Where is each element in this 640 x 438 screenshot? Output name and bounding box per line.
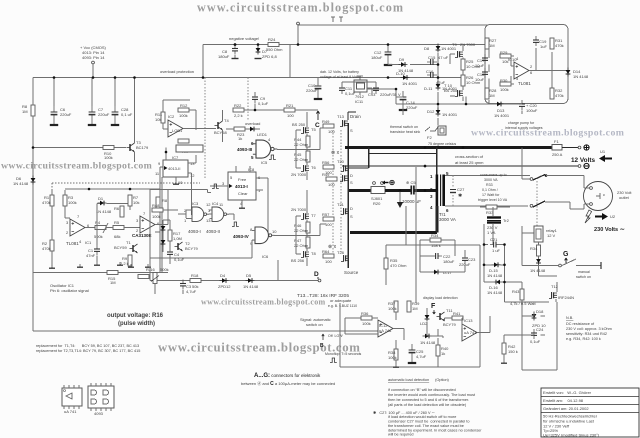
transistor T2 (175, 242, 183, 251)
svg-text:0,1uF: 0,1uF (174, 257, 185, 262)
svg-text:3000 VA: 3000 VA (484, 178, 498, 182)
junction dots bus (347, 146, 350, 149)
svg-text:470 Ohm: 470 Ohm (390, 263, 407, 268)
svg-text:Erstellt am: 04.12.98: Erstellt am: 04.12.98 (543, 398, 584, 403)
wires T2 (163, 220, 170, 264)
arrow U1 (599, 155, 612, 162)
wires driver lower (296, 190, 320, 266)
node connector circle (297, 22, 300, 25)
resistor R36 (361, 316, 372, 320)
resistor R41 (452, 316, 463, 320)
svg-text:sensitivity: R34 und R42: sensitivity: R34 und R42 (566, 332, 607, 336)
loop wire rounded (485, 25, 568, 104)
mosfet T8 (301, 251, 309, 258)
svg-text:IC7: IC7 (172, 155, 179, 160)
resistor R22 (233, 108, 244, 112)
diode D6 (31, 176, 36, 185)
capacitor C12 (384, 46, 392, 65)
capacitor C5 (410, 186, 412, 195)
svg-text:switch on: switch on (576, 275, 591, 279)
wires oscillator left (52, 190, 70, 265)
wire left edge x33 (32, 78, 34, 332)
svg-text:IC5: IC5 (261, 160, 268, 165)
svg-text:D4: D4 (220, 273, 226, 278)
svg-text:0,1 Ohm /: 0,1 Ohm / (482, 188, 498, 192)
diode D1 (98, 201, 107, 206)
wire R48 (163, 209, 178, 211)
wire R42 (504, 335, 522, 360)
svg-text:U2: U2 (610, 214, 616, 219)
connector marks top (331, 17, 343, 22)
svg-text:1M: 1M (412, 306, 418, 311)
svg-text:100: 100 (325, 259, 332, 264)
svg-text:G: G (563, 251, 569, 258)
svg-text:1M: 1M (22, 109, 28, 114)
wire step to pulse (150, 190, 211, 193)
svg-text:ZPD12: ZPD12 (218, 284, 231, 289)
resistor R24 (268, 43, 279, 47)
wires gates (178, 210, 234, 220)
text consumers (478, 173, 508, 202)
op-amp IC2 (168, 120, 183, 137)
wire osc top (65, 188, 160, 190)
svg-text:Source: Source (344, 270, 359, 275)
heavy pin1 feed (369, 154, 437, 176)
text T13..T28 (297, 293, 357, 308)
ground IC12 (393, 364, 399, 367)
wire row y147 (33, 147, 126, 149)
diode D8 (436, 44, 441, 53)
wire contact to outlet bottom (545, 202, 584, 209)
resistor R2 (50, 240, 54, 251)
svg-text:⊗ x: ⊗ x (331, 150, 340, 156)
svg-text:Geändert am: 20.01.2002: Geändert am: 20.01.2002 (543, 406, 589, 411)
diode D18 (532, 312, 537, 321)
svg-text:at least 25 qmm: at least 25 qmm (455, 160, 484, 165)
svg-text:230 Volts ∼: 230 Volts ∼ (594, 227, 625, 233)
capacitor C4 (167, 248, 173, 258)
svg-text:D1: D1 (98, 196, 104, 201)
junction dots extra (202, 76, 205, 79)
svg-text:250 A: 250 A (552, 152, 563, 157)
capacitor C1 (94, 245, 100, 255)
svg-text:1N 4148: 1N 4148 (530, 268, 546, 273)
svg-text:470k: 470k (42, 200, 51, 205)
svg-text:R24: R24 (268, 37, 276, 42)
svg-text:100k: 100k (152, 214, 161, 219)
capacitor C25 (408, 344, 416, 363)
svg-text:T21: T21 (337, 202, 345, 207)
wire contact to outlet top (546, 175, 584, 177)
heavy after shunt (385, 189, 411, 192)
svg-text:(pulse width): (pulse width) (118, 321, 155, 327)
resistor R29 (500, 54, 511, 58)
LED2 (425, 313, 430, 322)
svg-text:Monoflop: T≈5 seconds: Monoflop: T≈5 seconds (325, 352, 362, 356)
resistor R19 (138, 275, 149, 279)
wire mid rail y272 (33, 272, 168, 274)
title block frame (541, 388, 639, 437)
wire vertical x480 (479, 245, 481, 367)
svg-text:4093: Pin 14: 4093: Pin 14 (82, 55, 105, 60)
svg-text:R29: R29 (500, 50, 508, 55)
svg-text:T1: T1 (126, 240, 131, 245)
text manual switch on (576, 270, 591, 279)
junction dots top rail (53, 76, 56, 79)
svg-text:R8: R8 (162, 198, 168, 203)
wire T3 collector up (134, 78, 136, 163)
svg-text:17 Watt for: 17 Watt for (482, 193, 500, 197)
svg-text:output voltage: R16: output voltage: R16 (107, 313, 164, 319)
wire row y280 (150, 273, 318, 281)
svg-text:F2: F2 (427, 135, 432, 140)
text signal automatic (300, 317, 331, 327)
svg-text:BS 256: BS 256 (291, 258, 305, 263)
capacitor C20 (519, 100, 525, 110)
svg-text:T7: T7 (311, 213, 316, 218)
svg-text:1M: 1M (110, 280, 116, 285)
wire opamp out (85, 227, 97, 229)
svg-text:75 degree celsius: 75 degree celsius (428, 142, 456, 146)
svg-text:10k: 10k (133, 200, 139, 205)
wires IC2 (163, 100, 216, 130)
svg-text:1N 4001: 1N 4001 (494, 113, 510, 118)
svg-text:overload: overload (245, 121, 260, 126)
resistor R1 (50, 195, 54, 206)
resistor R23 (234, 127, 245, 131)
svg-text:100: 100 (325, 170, 332, 175)
svg-text:BCY58: BCY58 (214, 130, 227, 135)
svg-text:10000 uF: 10000 uF (402, 199, 421, 204)
svg-text:U1: U1 (600, 149, 606, 154)
diode D20 (423, 334, 432, 339)
manual switch (559, 264, 562, 267)
diode D10 (401, 75, 410, 80)
text automatic load detection (373, 378, 482, 437)
svg-text:N.B.: N.B. (566, 316, 573, 320)
svg-text:C21: C21 (490, 237, 498, 242)
svg-text:outlet: outlet (619, 195, 630, 200)
wire T13 (348, 112, 356, 120)
resistor R43 (520, 289, 524, 300)
ladder rung2 (484, 264, 505, 266)
resistor R18 (190, 279, 201, 283)
text charge pump (505, 121, 543, 130)
svg-text:100: 100 (325, 222, 332, 227)
resistor R6 (120, 206, 124, 217)
svg-text:IC3: IC3 (192, 201, 199, 206)
wire column x522 (505, 282, 558, 370)
capacitor C13 (373, 84, 379, 94)
diode D7 ZPD (256, 46, 261, 55)
diode D12 (436, 108, 441, 117)
resistor R37 (394, 301, 398, 312)
capacitor C7 (88, 106, 96, 125)
wires below box (466, 100, 522, 114)
text thermal switch (390, 125, 420, 134)
wire connector top (298, 25, 487, 45)
wire vcc drop (92, 64, 94, 78)
mosfet T6 (301, 165, 309, 172)
wire nand out (277, 148, 308, 150)
fuse F1 (552, 145, 562, 151)
capacitor C10 (314, 80, 322, 99)
transistor T9 (455, 51, 463, 58)
op-amp IC1 TL081 (70, 219, 85, 236)
wire R33 (480, 207, 510, 216)
node vcc circle (92, 61, 95, 64)
svg-text:47nF: 47nF (86, 253, 96, 258)
svg-text:220uF/35 V: 220uF/35 V (380, 92, 401, 97)
diode D13 (495, 102, 504, 107)
resistor R24b (430, 238, 441, 242)
resistor R12 (178, 108, 189, 112)
mosfet T5 (301, 127, 309, 134)
svg-text:12: 12 (206, 202, 211, 207)
svg-text:R43: R43 (512, 289, 520, 294)
svg-text:T28: T28 (337, 250, 345, 255)
transistor T1 (130, 244, 138, 253)
svg-text:180uF: 180uF (218, 54, 230, 59)
svg-text:Tr2: Tr2 (503, 218, 510, 223)
svg-text:4013-I: 4013-I (235, 184, 248, 189)
wire y64 (388, 64, 438, 66)
svg-text:100k: 100k (179, 113, 188, 118)
svg-text:10: 10 (272, 229, 277, 234)
connector C bold (316, 111, 319, 120)
svg-text:1N 4148: 1N 4148 (487, 290, 503, 295)
svg-text:1k: 1k (441, 351, 445, 356)
svg-text:C15: C15 (428, 55, 436, 60)
svg-text:220uF: 220uF (98, 112, 110, 117)
svg-text:Erstellt von: W.-G. Ghörer: Erstellt von: W.-G. Ghörer (543, 390, 592, 395)
svg-text:R34: R34 (431, 233, 439, 238)
svg-text:transistor heat sink: transistor heat sink (390, 130, 420, 134)
svg-text:T9: T9 (452, 42, 457, 47)
svg-text:internal supply voltages: internal supply voltages (505, 126, 543, 130)
svg-text:Clear: Clear (238, 191, 248, 196)
svg-text:1N 4148: 1N 4148 (420, 340, 436, 345)
svg-text:220uF: 220uF (60, 112, 72, 117)
svg-text:220uF: 220uF (406, 105, 418, 110)
svg-text:13: 13 (206, 218, 211, 223)
resistor R49 (323, 124, 334, 128)
svg-text:between Ⓐ and C a 100µA-meter: between Ⓐ and C a 100µA-meter may be con… (241, 380, 335, 387)
resistor R47 (306, 237, 310, 248)
diode D3 (161, 238, 166, 247)
svg-text:the inverter would work contin: the inverter would work continuously. Th… (388, 393, 476, 397)
diode D9 (399, 62, 408, 67)
wires IC12 (345, 318, 404, 340)
wire reg out (367, 89, 466, 115)
svg-text:0,1uF: 0,1uF (258, 101, 269, 106)
svg-text:IC6: IC6 (262, 254, 269, 259)
wires charge pump (489, 48, 568, 88)
svg-text:1N 4148: 1N 4148 (573, 74, 589, 79)
wires relay bottom (539, 242, 558, 276)
terminal minus (578, 165, 581, 168)
svg-text:charge pump for: charge pump for (508, 121, 535, 125)
capacitor C3 (180, 280, 186, 290)
wire opamp2 out (155, 189, 168, 232)
arrow U2 (595, 213, 608, 220)
capacitor C19 (533, 36, 539, 46)
svg-text:R36: R36 (361, 311, 369, 316)
wires IC7 (160, 148, 196, 273)
diode D17 (432, 270, 441, 275)
resistor R38 (394, 349, 398, 360)
resistor R10 (103, 146, 114, 150)
svg-text:Off LOW: Off LOW (328, 334, 343, 338)
svg-text:500k: 500k (160, 267, 169, 272)
svg-text:R34: R34 (530, 246, 538, 251)
svg-text:4093-III: 4093-III (237, 147, 252, 152)
svg-text:Pin 6: oscillator signal: Pin 6: oscillator signal (50, 288, 89, 293)
svg-text:R30: R30 (500, 78, 508, 83)
diode D11 (436, 82, 441, 91)
svg-text:IC13: IC13 (464, 318, 473, 323)
transformer Tr2 (487, 216, 501, 218)
svg-text:Free: Free (238, 177, 247, 182)
svg-text:B: B (320, 343, 324, 349)
svg-text:IC8: IC8 (248, 167, 255, 172)
svg-text:if load detection would switch: if load detection would switch off to mo… (388, 415, 456, 419)
DIP uA741 (62, 388, 82, 406)
capacitor C9 (252, 93, 258, 103)
outlet circle (584, 182, 613, 211)
svg-text:BCY59: BCY59 (114, 245, 127, 250)
svg-text:4013-II: 4013-II (168, 166, 180, 171)
svg-text:or adequate: or adequate (330, 298, 352, 303)
svg-text:1N 4148: 1N 4148 (487, 273, 503, 278)
svg-text:500k: 500k (94, 234, 103, 239)
relay coil (534, 226, 543, 242)
resistor R42 (502, 343, 506, 354)
wire bottom box edge y331 (33, 330, 390, 332)
ground R42 (501, 360, 507, 363)
transistor T3 (127, 143, 135, 152)
pot R16 (153, 273, 157, 284)
mosfet T20 (341, 165, 349, 172)
svg-text:DC resistance of: DC resistance of (566, 322, 595, 326)
text output voltage bold (107, 313, 164, 327)
svg-text:4093-IV: 4093-IV (233, 234, 249, 239)
svg-text:D-10: D-10 (396, 71, 405, 76)
mosfet T28 (341, 255, 349, 262)
ladder rung1 (484, 244, 505, 246)
resistor R46 (306, 222, 310, 233)
svg-text:68k: 68k (114, 234, 120, 239)
svg-text:D18: D18 (536, 309, 544, 314)
wire pin4 down (436, 206, 438, 233)
ground IC7 (173, 181, 179, 184)
svg-text:e.g. B. s.BUZ 1110: e.g. B. s.BUZ 1110 (328, 304, 357, 308)
svg-text:1N 4001: 1N 4001 (402, 81, 418, 86)
connector circles shunt (373, 182, 376, 185)
svg-text:100k: 100k (68, 200, 77, 205)
capacitor C11 (339, 84, 345, 94)
svg-text:0,1uF: 0,1uF (530, 339, 541, 344)
LED1 (248, 127, 257, 132)
resistor R57 (323, 217, 334, 221)
wire T12 (522, 282, 557, 302)
resistor R25 (461, 59, 465, 70)
wires lower IC12 (396, 312, 412, 364)
svg-text:IRF244N: IRF244N (558, 295, 574, 300)
svg-text:S: S (350, 128, 353, 133)
svg-text:R12: R12 (180, 103, 188, 108)
IC7 box 4013-II (163, 160, 188, 177)
svg-text:T6: T6 (311, 165, 316, 170)
mosfet T10 (455, 90, 463, 97)
op-amp IC10 TL081 (514, 62, 529, 79)
svg-text:0,1 uF: 0,1 uF (121, 112, 133, 117)
svg-text:1N 4148: 1N 4148 (13, 181, 29, 186)
svg-text:voltage of at least 9 Volts!: voltage of at least 9 Volts! (320, 75, 361, 79)
resistor R35 (384, 258, 388, 269)
diode D15 (492, 262, 501, 267)
svg-text:C16: C16 (426, 69, 434, 74)
wires 4093-IV (150, 231, 308, 259)
resistor R31 (550, 38, 554, 49)
resistor R39 (407, 301, 411, 312)
bank solid column (347, 123, 349, 268)
pulse mid (212, 184, 219, 189)
svg-text:2N 7000: 2N 7000 (460, 42, 476, 47)
resistor R5 (113, 226, 124, 230)
svg-text:display load detection: display load detection (423, 296, 458, 300)
resistor R30 (500, 82, 511, 86)
box R13 (176, 145, 203, 152)
resistor R64 (323, 254, 334, 258)
resistor R26 (461, 75, 465, 86)
svg-text:uA 741: uA 741 (464, 330, 477, 335)
resistor R28 (485, 88, 489, 99)
svg-text:manual: manual (578, 270, 590, 274)
capacitor C14 (399, 91, 407, 110)
svg-text:LOB1: LOB1 (172, 128, 183, 133)
resistor R56 (323, 165, 334, 169)
mosfet T13 (340, 175, 348, 182)
svg-text:470k: 470k (42, 246, 51, 251)
svg-text:1 VA: 1 VA (487, 230, 496, 235)
text 230 volt outlet (617, 190, 632, 200)
svg-text:Drain: Drain (350, 114, 361, 119)
svg-text:4093-I: 4093-I (188, 229, 201, 234)
section verticals (205, 78, 248, 181)
svg-text:IC1: IC1 (85, 240, 92, 245)
resistor R67 (326, 177, 337, 181)
svg-text:1N 4148: 1N 4148 (96, 209, 112, 214)
svg-text:2N 7000: 2N 7000 (291, 207, 307, 212)
svg-text:1 uF: 1 uF (492, 248, 501, 253)
svg-text:uA 741: uA 741 (379, 328, 392, 333)
svg-text:180uF: 180uF (443, 259, 455, 264)
svg-text:will be required: will be required (388, 433, 414, 437)
svg-text:230 V coil: approx. 3 kOhm: 230 V coil: approx. 3 kOhm (566, 327, 612, 331)
wire secondary pin5 (445, 175, 530, 177)
svg-text:R18: R18 (191, 273, 199, 278)
text replacement (36, 344, 140, 353)
svg-text:IC4: IC4 (212, 201, 219, 206)
resistor R33 (486, 205, 497, 209)
wires mid osc (97, 204, 140, 246)
svg-text:TL081: TL081 (518, 81, 531, 86)
svg-text:C27: C27 (457, 187, 465, 192)
svg-text:dab. 12 Volts, for battery: dab. 12 Volts, for battery (320, 70, 359, 74)
svg-text:if connection on “B” will be d: if connection on “B” will be disconnecte… (388, 388, 456, 392)
svg-text:150 k: 150 k (508, 349, 518, 354)
